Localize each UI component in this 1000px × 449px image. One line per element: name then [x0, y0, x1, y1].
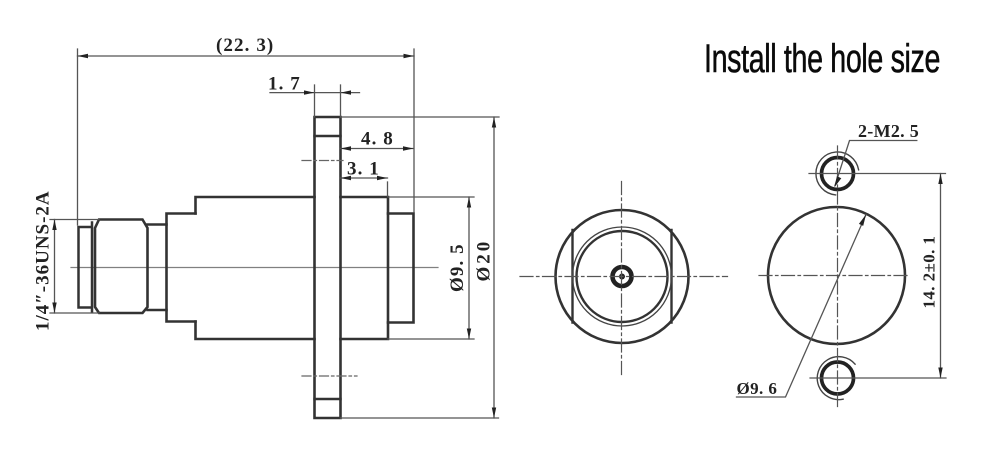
horizontal centerline big circle — [759, 275, 910, 277]
dim 4.8 — [341, 148, 414, 150]
bottom mounting hole M2.5 — [822, 362, 854, 394]
svg-text:Ø9. 6: Ø9. 6 — [737, 379, 778, 398]
vertical centerline through holes — [837, 146, 839, 408]
body front small section — [167, 214, 196, 322]
top hole horizontal centerline / extension — [809, 173, 946, 175]
body main section Ø9.5 — [196, 197, 315, 339]
title — [704, 37, 876, 82]
svg-text:2-M2. 5: 2-M2. 5 — [858, 121, 919, 141]
bottom hole horizontal centerline / extension — [810, 377, 946, 379]
dim (22.3) — [78, 49, 415, 225]
bottom hole thread arc — [817, 357, 855, 400]
dim 1.7 — [270, 92, 360, 94]
mounting plate circle Ø9.6 — [768, 207, 905, 344]
dim thread 1/4-36UNS-2A — [50, 220, 99, 314]
label 2-M2.5 leader — [835, 141, 917, 186]
vertical centerline — [621, 182, 623, 377]
dim 14.2 line — [940, 174, 942, 379]
coupling nut (threaded barrel) — [95, 220, 148, 314]
center pin dot — [619, 274, 625, 280]
svg-text:1/4″-36UNS-2A: 1/4″-36UNS-2A — [33, 190, 54, 331]
svg-text:4. 8: 4. 8 — [361, 129, 394, 150]
dim 3.1 — [341, 177, 388, 179]
svg-text:1. 7: 1. 7 — [268, 74, 301, 95]
center socket — [613, 267, 632, 286]
horizontal centerline — [520, 276, 728, 278]
hex flats — [573, 230, 672, 323]
flange hole centerline bottom — [302, 375, 357, 377]
svg-text:Ø9. 5: Ø9. 5 — [447, 243, 468, 292]
dim Ø20 — [341, 117, 500, 418]
top mounting hole M2.5 — [822, 158, 854, 190]
bore circle — [577, 231, 668, 322]
label Ø9.6 leader — [737, 215, 867, 398]
flange — [315, 117, 341, 418]
dim Ø9.5 — [388, 197, 474, 339]
body back Ø9.5 section — [341, 197, 389, 339]
flange hole centerline top — [302, 160, 343, 162]
svg-text:(22. 3): (22. 3) — [216, 35, 274, 56]
centerline — [71, 267, 438, 269]
front rim — [79, 223, 93, 312]
top hole thread arc — [816, 152, 859, 195]
svg-text:3. 1: 3. 1 — [347, 159, 380, 180]
svg-text:Ø20: Ø20 — [474, 239, 495, 282]
svg-text:14. 2±0. 1: 14. 2±0. 1 — [920, 236, 939, 309]
body back small section — [388, 214, 414, 323]
thread circle thin — [573, 227, 672, 326]
outer circle — [556, 210, 689, 343]
flange hole edge lines — [315, 136, 341, 399]
neck groove — [148, 225, 167, 311]
